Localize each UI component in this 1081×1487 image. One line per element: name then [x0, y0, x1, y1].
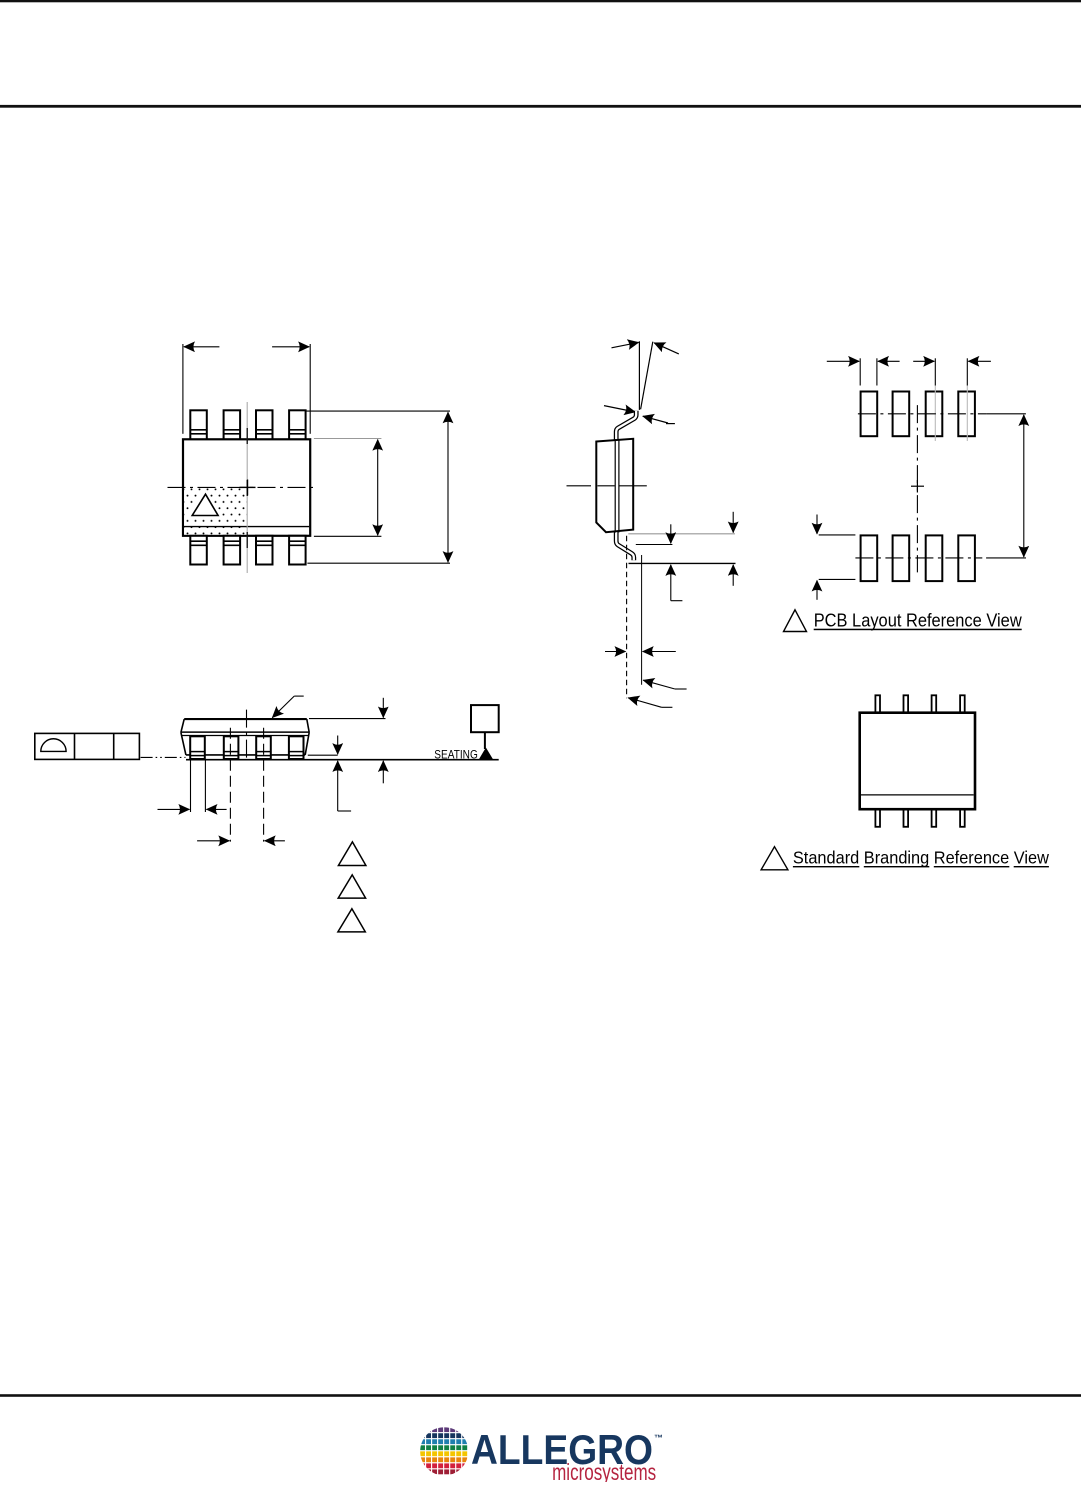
svg-text:microsystems: microsystems	[552, 1460, 656, 1482]
svg-text:PCB Layout Reference View: PCB Layout Reference View	[814, 610, 1023, 631]
svg-text:™: ™	[654, 1433, 663, 1443]
svg-text:Standard Branding Reference Vi: Standard Branding Reference View	[793, 848, 1049, 868]
svg-text:SEATING: SEATING	[434, 748, 478, 762]
